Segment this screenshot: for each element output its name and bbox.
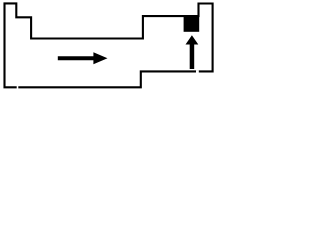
right arrow inside table body — [58, 52, 108, 64]
gap artifact in bottom line — [17, 86, 19, 89]
marked element square (top right) — [184, 15, 200, 32]
gap artifact in lower-right line — [196, 70, 199, 73]
up arrow pointing to marked element — [186, 35, 199, 69]
periodic table silhouette outline — [5, 3, 213, 87]
periodic table outline diagram — [0, 0, 217, 91]
